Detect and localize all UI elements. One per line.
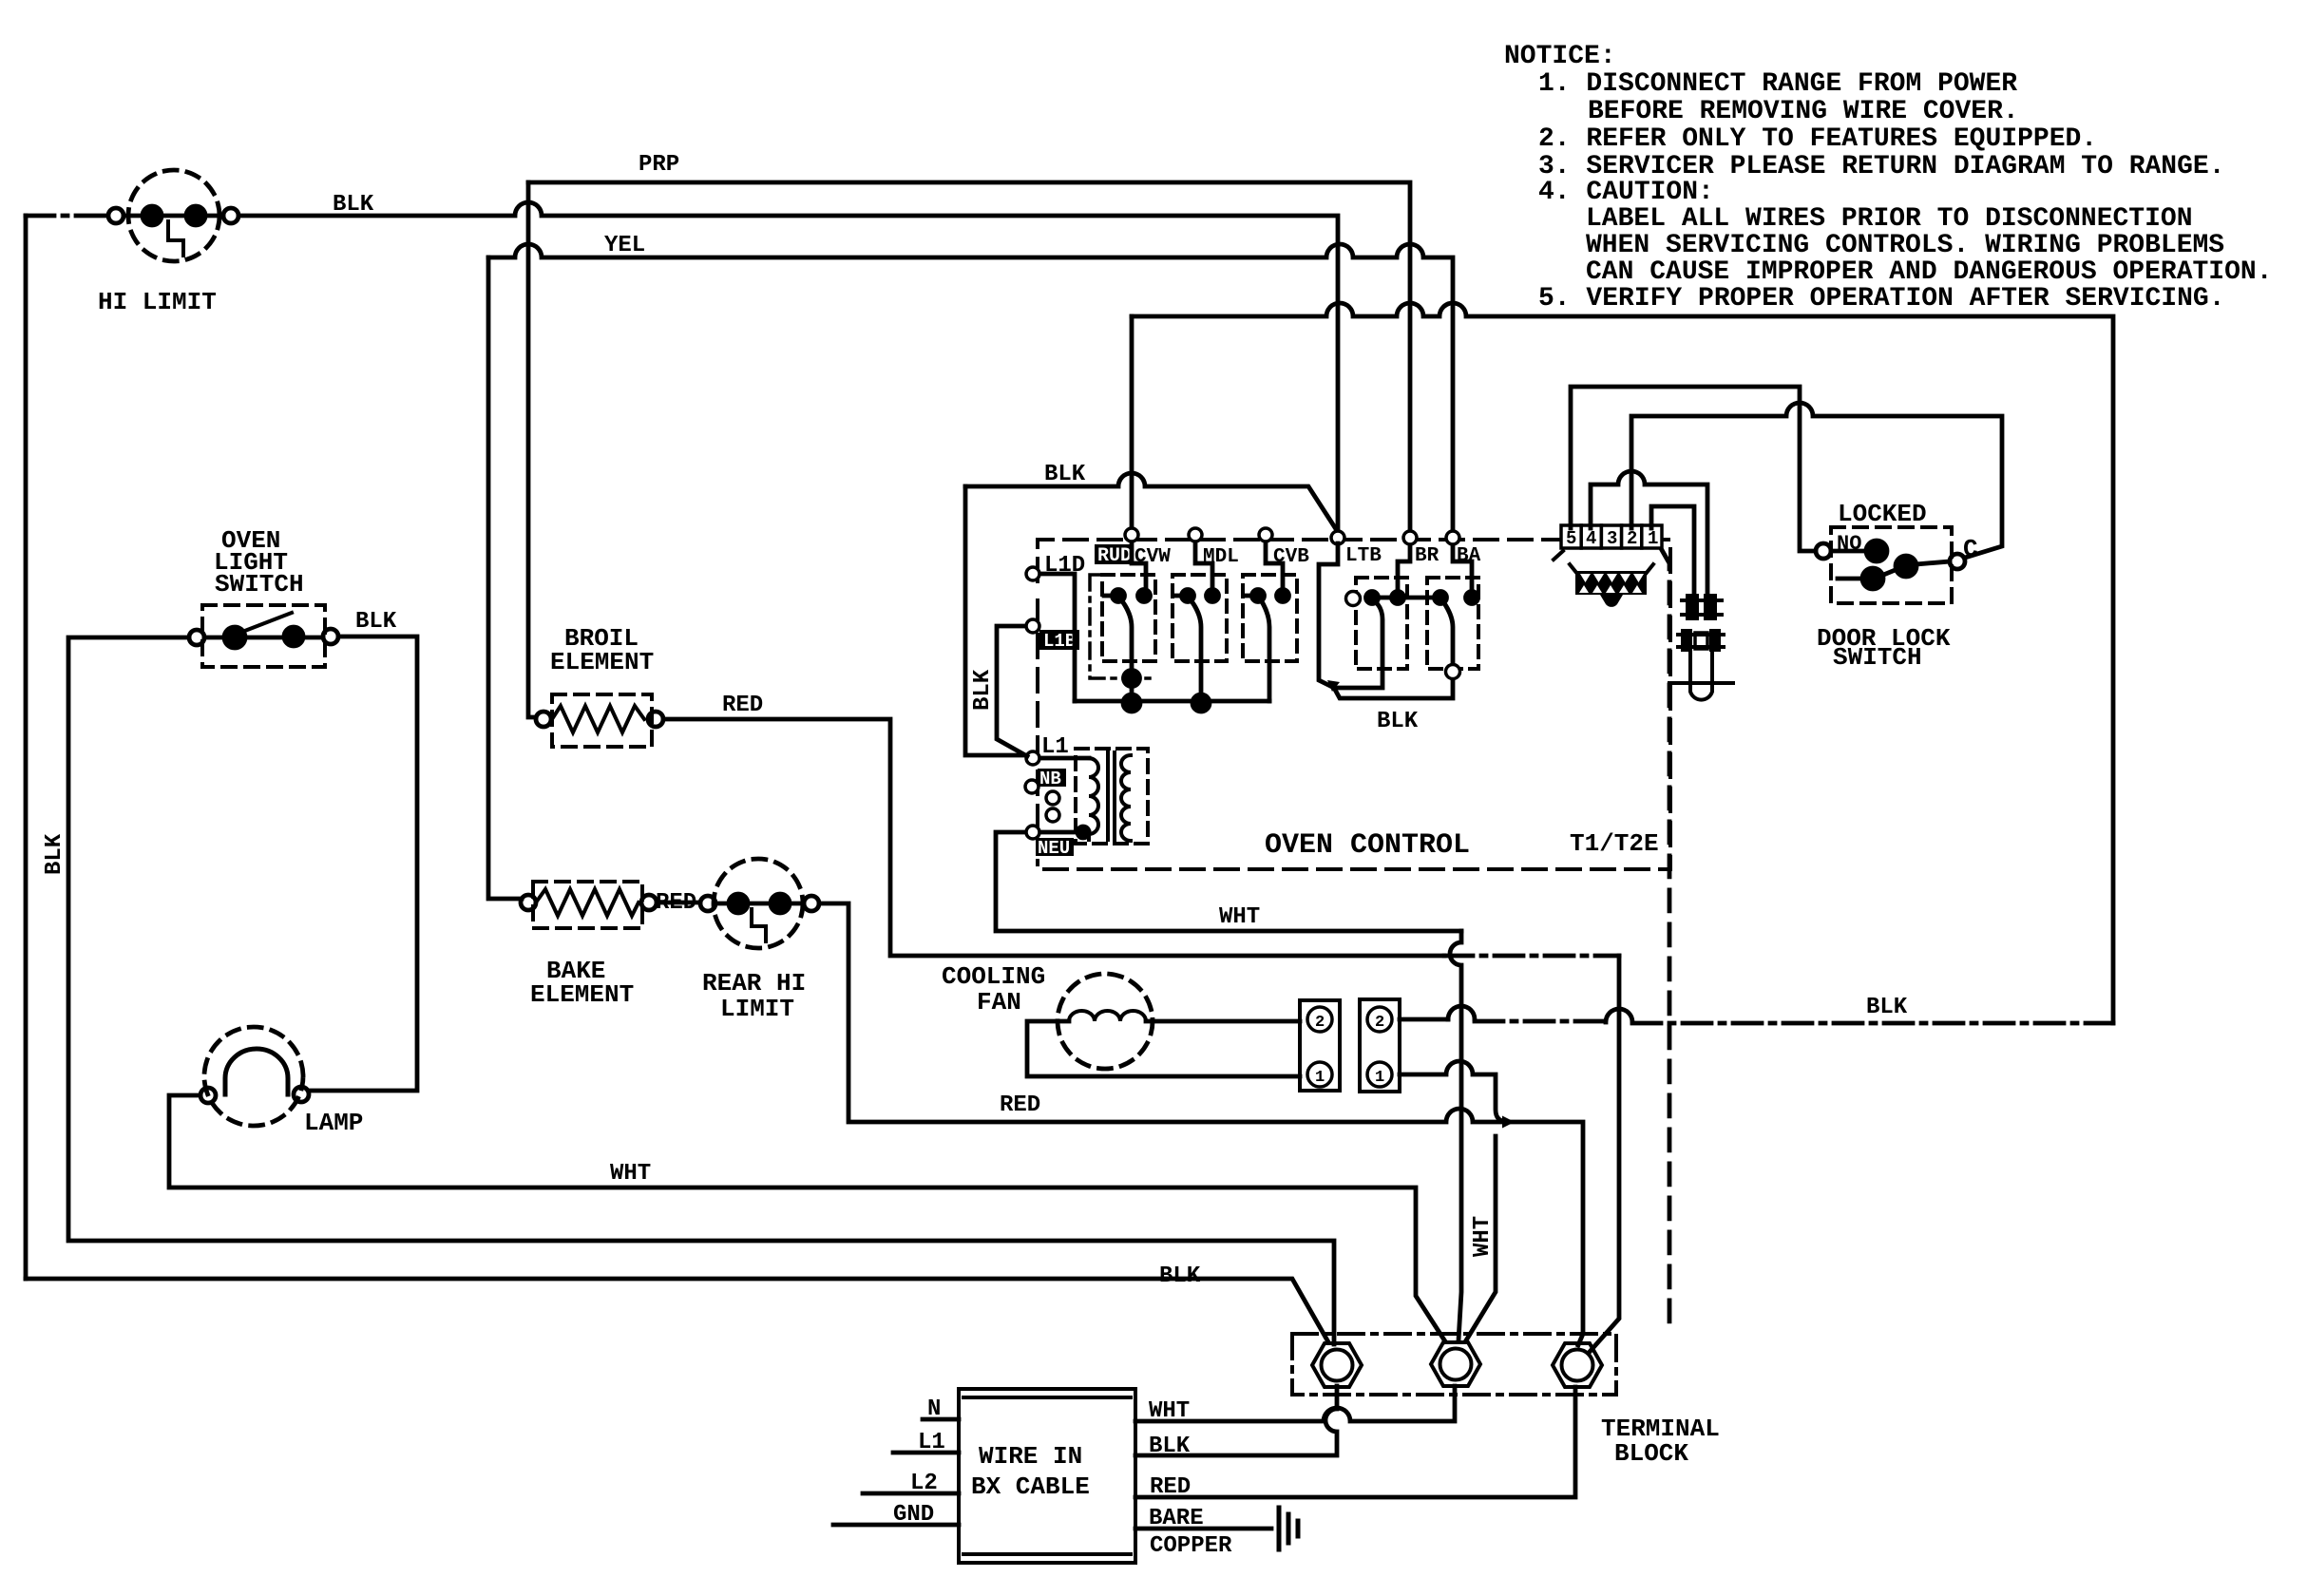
rear hi limit actuator step [752,909,766,941]
terminal spare [1025,780,1039,793]
terminal block label [1601,1415,1720,1468]
relay LTB open contact circle [1346,592,1361,606]
relay MDL dashed box [1173,575,1227,661]
solenoid upper connector piece [1682,600,1722,615]
contact link line BR-BA [1406,596,1432,600]
svg-text:COPPER: COPPER [1150,1533,1232,1559]
rear hi limit dashed circle [714,859,803,948]
door lock LOCKED dashed box [1831,527,1952,603]
svg-text:BLOCK: BLOCK [1614,1439,1688,1468]
terminal L1D [1026,567,1039,580]
svg-text:2: 2 [1627,528,1637,549]
svg-text:BEFORE REMOVING WIRE COVER.: BEFORE REMOVING WIRE COVER. [1588,97,2019,126]
door lock switch label [1817,624,1951,672]
svg-text:3: 3 [1607,528,1617,549]
hi-limit actuator step [168,221,183,256]
wire: BLK vertical from feed line down to L1 [965,486,1025,755]
svg-text:YEL: YEL [604,233,645,258]
transformer primary coil [1089,758,1098,840]
relay BR/BA armature to lower circle [1442,600,1453,663]
svg-text:L1B: L1B [1043,631,1076,652]
svg-text:LTB: LTB [1345,545,1382,567]
door lock lower contact dot [1862,568,1883,589]
arrowhead at LTB junction [1327,680,1340,692]
relay terminal RUD/CVW [1125,528,1138,541]
node: BLK wire hi-limit to LTB with hop over PRP vertical [238,202,1338,532]
door lock NO terminal [1816,543,1831,559]
svg-text:NOTICE:: NOTICE: [1504,42,1616,71]
wire: dash-dot lead left of hi-limit [26,214,108,218]
relay RUD/CVW fixed contact stub [1104,594,1112,598]
rear hi limit contact dot left [729,894,748,913]
svg-text:L2: L2 [910,1471,938,1496]
lamp dashed circle [204,1027,303,1126]
terminal nut 2 [1431,1342,1480,1386]
wire: NEU to transformer primary bottom with junction dot [1040,830,1089,835]
relay BR/BA dashed box [1427,578,1478,669]
oven light switch contact dot right [284,627,303,646]
svg-text:BLK: BLK [1149,1434,1191,1459]
notice text block [1504,42,2273,313]
svg-text:T1/T2E: T1/T2E [1570,829,1659,858]
relay RUD/CVW dash-dot outer box [1090,575,1155,678]
wire: pin1 stub to solenoid left lead [1651,506,1694,594]
wire: BLK dash-dot from pin2 B to right edge vertical [1400,1017,1448,1022]
svg-text:BLK: BLK [355,609,397,635]
wire: NEU lead left and down to WHT line [996,832,1461,931]
relay LTB contact dot [1366,592,1379,604]
wire: oven light switch right lead down to lamp [310,636,417,1091]
relay RUD/CVW contact dots [1138,590,1151,602]
brush body band [1575,571,1647,595]
svg-text:SWITCH: SWITCH [215,570,304,598]
svg-text:LAMP: LAMP [304,1109,363,1137]
svg-text:BA: BA [1457,545,1481,567]
relay BA contact dot [1466,592,1478,604]
svg-text:5: 5 [1566,528,1576,549]
ground symbol [1279,1508,1298,1549]
svg-text:RUD: RUD [1097,545,1132,567]
relay CVB dashed box [1243,575,1297,661]
svg-text:ELEMENT: ELEMENT [550,648,654,676]
svg-text:GND: GND [893,1502,934,1528]
relay LTB branch to armature bottom [1334,601,1382,688]
svg-text:2: 2 [1375,1014,1384,1032]
wire: RED dash-dot corner down to terminal nut 3 [1589,956,1619,1353]
input N [923,1417,959,1422]
terminal NEU [1026,826,1039,839]
wire BR terminal to its dot [1398,545,1410,589]
wire: PRP rail to BR [528,182,1410,531]
broil element label [550,624,654,676]
svg-text:COOLING: COOLING [942,962,1045,991]
wire: broil RED lead down and right (dash-dot tail) [663,719,1444,956]
relay CVB feed jog to moving contact [1266,542,1283,589]
brush white teeth [1579,574,1644,593]
pin 1 circle A [1307,1062,1332,1087]
relay terminal CVB [1259,528,1272,541]
input GND [833,1523,959,1528]
wire: pin5 up and right to door lock NO [1571,387,1816,551]
pin 2 circle A [1307,1007,1332,1032]
hi-limit through wire [124,214,223,218]
input L1 [893,1451,959,1455]
junction dot relay2 bus [1192,694,1210,712]
hi-limit switch S1 dashed circle [128,170,219,261]
svg-text:WHT: WHT [1219,904,1260,930]
svg-text:2: 2 [1315,1014,1325,1032]
junction dot on dash-dot box edge [1124,671,1140,687]
bake element resistor zigzag [536,889,639,916]
relay RUD/CVW armature [1120,598,1132,701]
relay CVB fixed contact stub [1245,594,1251,598]
mating connector brush flare right [1646,564,1653,574]
door lock middle contact dot [1896,556,1916,577]
svg-text:1: 1 [1315,1069,1325,1087]
wire: oven light switch left lead and BLK vertical [68,637,1334,1344]
lamp right terminal [294,1087,309,1102]
svg-text:WHT: WHT [1149,1398,1190,1424]
relay bus line [1075,699,1269,704]
lamp filament arc [225,1049,288,1094]
hi-limit contact dot right [186,206,205,225]
svg-text:BX CABLE: BX CABLE [971,1472,1090,1501]
relay BA lower open contact circle [1446,665,1460,679]
terminal nut 3 [1553,1343,1602,1387]
hi-limit right terminal [223,208,238,223]
wire: left outer vertical BLK [24,216,29,1279]
oven light switch dashed box [202,605,325,667]
terminal L1B [1026,619,1039,633]
relay MDL fixed contact stub [1174,594,1181,598]
relay LTB dashed box [1356,578,1407,669]
svg-text:CAN CAUSE IMPROPER AND DANGERO: CAN CAUSE IMPROPER AND DANGEROUS OPERATI… [1586,257,2273,287]
oven light switch left terminal [189,630,204,645]
svg-text:4: 4 [1586,528,1596,549]
relay RUD/CVW dashed box [1102,575,1155,661]
svg-text:BLK: BLK [333,192,374,218]
wire: YEL rail to BA with hops [488,244,1453,532]
wire: rear hi limit RED output down then right to nut3 [819,903,1583,1345]
relay MDL feed jog to moving contact [1195,542,1212,589]
svg-text:LABEL ALL WIRES PRIOR TO DISCO: LABEL ALL WIRES PRIOR TO DISCONNECTION [1586,204,2193,234]
wire: RED from BX to nut3 [1135,1387,1575,1497]
svg-text:OVEN CONTROL: OVEN CONTROL [1265,829,1470,862]
wire: BLK relay feed line hop over relay1 vertical then diagonal to LTB [965,473,1338,532]
wire: L1D to relay bus [1040,574,1075,701]
relay CVB contact dots [1277,590,1289,602]
connector pin digits [1566,528,1658,549]
svg-text:RED: RED [722,693,763,718]
hi-limit contact dot left [143,206,162,225]
input L2 [863,1491,959,1496]
relay MDL contact dots [1207,590,1219,602]
broil element left terminal [536,712,551,727]
transformer secondary coil [1121,755,1131,841]
wire: relay RUD/CVW top rail to right edge with hops [1132,303,2113,1023]
oven light switch label [214,526,304,598]
relay RUD/CVW feed jog to moving contact [1132,542,1146,589]
cooling fan dashed circle [1058,974,1153,1069]
connector 5-4-3-2-1 shell [1561,525,1662,548]
svg-text:HI LIMIT: HI LIMIT [98,288,217,316]
svg-text:BLK: BLK [1377,709,1419,734]
bx cable label [971,1442,1090,1501]
cooling fan label [942,962,1045,1016]
svg-text:BLK: BLK [42,833,67,875]
svg-text:1. DISCONNECT RANGE FROM POWER: 1. DISCONNECT RANGE FROM POWER [1538,69,2017,99]
door lock C terminal [1950,554,1965,569]
oven control dashed outline box [1038,540,1670,869]
svg-text:LOCKED: LOCKED [1838,500,1927,528]
svg-text:BLK: BLK [970,669,996,711]
pin 2 circle B [1367,1007,1392,1032]
svg-text:BLK: BLK [1044,462,1086,487]
svg-text:2. REFER ONLY TO FEATURES EQUI: 2. REFER ONLY TO FEATURES EQUIPPED. [1538,124,2097,154]
bake element left terminal [521,895,536,910]
wire: L1 to transformer primary [1040,756,1089,761]
bare copper lead [1135,1527,1271,1531]
relay BR fixed dot [1435,592,1447,604]
svg-text:WHT: WHT [610,1161,651,1187]
broil element right terminal [648,712,663,727]
wire: fan upper lead to connector pin 2 [1146,1019,1300,1024]
wire in bx cable box [959,1389,1135,1563]
output labels [1149,1398,1232,1559]
relay terminal MDL [1189,528,1202,541]
svg-text:5. VERIFY PROPER OPERATION AFT: 5. VERIFY PROPER OPERATION AFTER SERVICI… [1538,284,2225,313]
pin 1 circle B [1367,1062,1392,1087]
bake element label [530,957,634,1009]
relay terminal BR [1403,531,1417,544]
svg-text:BR: BR [1415,545,1439,567]
rear hi limit through wire [715,902,804,906]
wire: fan lower lead to connector pin 1 [1027,1021,1300,1076]
plunger crossbar [1669,681,1733,685]
svg-text:WHT: WHT [1470,1216,1496,1257]
wire: lamp left lead down to WHT line [169,1095,1445,1341]
connector left tick [1554,551,1563,560]
plunger rounded tip [1690,683,1712,700]
wire: YEL vertical down to bake element [488,257,522,899]
door lock common lower stub [1838,577,1862,581]
door lock armature [1881,569,1897,576]
wire: L1B bypass to L1 [997,626,1027,756]
terminal nut 1 [1312,1343,1362,1387]
broil element resistor zigzag [552,706,644,732]
rear hi limit label [702,969,806,1023]
svg-text:WIRE IN: WIRE IN [979,1442,1082,1471]
broil element dashed box [552,694,652,747]
oven light switch right terminal [323,629,338,644]
svg-text:RED: RED [1000,1092,1040,1118]
svg-text:N: N [927,1396,941,1422]
mating connector brush flare left [1570,564,1577,574]
wire middle dot to C terminal [1916,561,1950,564]
svg-text:SWITCH: SWITCH [1833,643,1922,672]
terminal block dash-dot box [1292,1334,1616,1395]
relay LTB branch to BA lower contact [1334,680,1453,698]
svg-text:WHEN SERVICING CONTROLS. WIRIN: WHEN SERVICING CONTROLS. WIRING PROBLEMS [1586,231,2224,260]
oven light switch contact dot left [224,627,245,648]
relay CVB armature [1260,598,1269,701]
fan connector plug half B [1360,999,1400,1092]
cooling fan coil [1069,1011,1146,1021]
bake element dashed box [533,882,642,928]
wire: WHT from BX to nut2 [1135,1386,1455,1421]
contact link line LTB-BR [1381,596,1389,600]
relay MDL armature [1190,598,1201,701]
door lock NO contact dot [1866,541,1887,561]
arrow merge on RED line [1502,1116,1515,1129]
brush bottom tip [1600,595,1623,607]
svg-text:NB: NB [1039,769,1061,789]
terminal L1 [1026,751,1039,765]
svg-text:NEU: NEU [1038,838,1070,859]
wire NO terminal to dot [1831,549,1866,554]
wire: dashed vertical from connector to terminal block [1662,550,1669,1330]
relay terminal BA [1446,531,1459,544]
svg-text:1: 1 [1648,528,1658,549]
junction dot relay1 bus [1123,694,1140,712]
svg-text:PRP: PRP [639,152,679,178]
wire: pin4 to solenoid right lead [1591,471,1707,594]
solenoid plunger body [1690,652,1712,682]
svg-text:L1: L1 [918,1430,945,1455]
transformer dashed box [1076,749,1148,844]
svg-text:BLK: BLK [1159,1263,1201,1289]
solenoid lower connector piece [1678,635,1724,647]
relay LTB feed long vertical [1319,543,1338,688]
rear hi limit contact dot right [771,894,790,913]
label RUD inverse [1095,544,1132,567]
svg-text:1: 1 [1375,1069,1384,1087]
rear hi limit right terminal [804,896,819,911]
svg-text:4. CAUTION:: 4. CAUTION: [1538,178,1714,207]
transformer tap circles [1046,791,1059,805]
wire: WHT drop to terminal nut 2 [1466,1136,1496,1340]
relay BA feed jog [1453,545,1472,589]
fan connector plug half A [1300,1000,1340,1091]
wire: bottom outer horizontal to terminal block [26,1279,1327,1340]
lamp left terminal [200,1088,216,1103]
relay terminal LTB [1331,531,1344,544]
hi-limit left terminal [108,208,124,223]
wire: pin1 B jog to WHT drop [1400,1061,1508,1122]
bake element right terminal [641,895,657,910]
svg-text:ELEMENT: ELEMENT [530,980,634,1009]
svg-text:RED: RED [1150,1474,1191,1500]
wire: WHT from NEU corner down to terminal nut2, with crossing bumps [1450,931,1461,1340]
wire: nut1 down to BLK input with hop over WHT [1135,1386,1337,1455]
oven light switch arm [238,613,292,634]
svg-text:REAR HI: REAR HI [702,969,806,997]
wire: PRP vertical down to broil element [528,182,536,717]
wire: relay RUD/CVW top vertical [1130,316,1134,528]
wire: bake to rear hi limit [657,901,700,905]
svg-text:FAN: FAN [977,988,1021,1016]
wire: pin2 up over to door lock C [1631,403,2002,558]
svg-text:LIMIT: LIMIT [720,995,794,1023]
relay BR feed dot [1392,592,1404,604]
oven light switch through wire [204,636,323,640]
svg-text:BLK: BLK [1866,995,1908,1020]
rear hi limit left terminal [700,896,715,911]
transformer core [1108,752,1115,840]
